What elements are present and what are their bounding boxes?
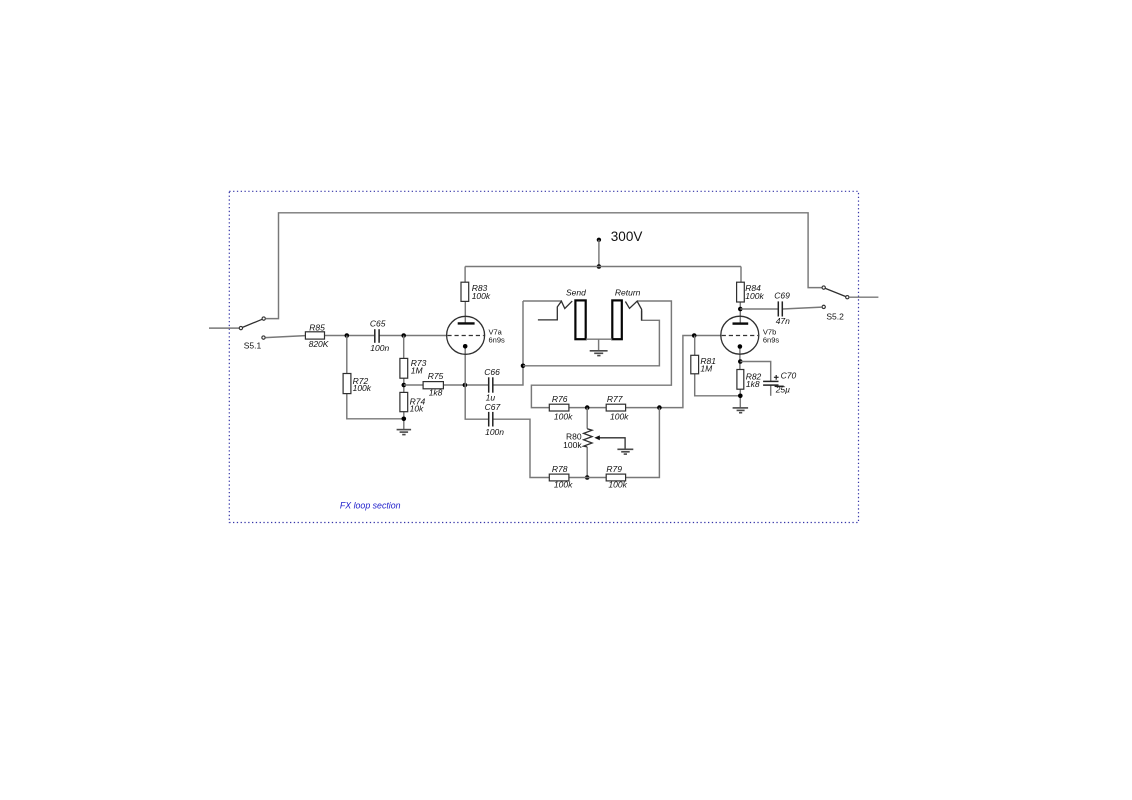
wire R75 to C66: [443, 384, 488, 386]
wire R80 bottom to R78/R79 row: [586, 447, 588, 478]
capacitor C69: [778, 301, 782, 316]
triode V7a grid (dashed): [447, 335, 483, 337]
wire C66 right up to send net: [493, 301, 523, 385]
wire C69 to S5.2 lower contact: [783, 307, 822, 309]
switch S5.1 common contact: [239, 326, 242, 329]
wire node to R75: [404, 384, 423, 386]
300V supply dot: [597, 238, 601, 242]
capacitor C66: [489, 377, 493, 392]
node junction 300V rail: [597, 264, 602, 269]
triode V7a anode plate: [458, 322, 475, 324]
svg-text:100n: 100n: [370, 343, 389, 353]
node junction V7b grid / R81: [692, 333, 697, 338]
wire node down to R79 right: [626, 408, 660, 478]
triode V7a cathode terminal: [463, 344, 468, 349]
wire R74 bottom to ground: [403, 412, 405, 429]
wire jack sleeves to ground: [586, 339, 612, 350]
resistor R77: [606, 404, 625, 411]
svg-text:100k: 100k: [608, 480, 627, 490]
resistor R83: [461, 282, 469, 301]
svg-text:C67: C67: [485, 402, 501, 412]
wire R83 bottom to V7a anode: [464, 301, 466, 322]
svg-text:C70: C70: [781, 371, 797, 381]
wire 300V anode supply rail: [465, 266, 741, 268]
svg-text:6n9s: 6n9s: [489, 335, 506, 344]
wire junction down to R73: [403, 336, 405, 359]
wire rail down to R84: [740, 267, 742, 283]
triode V7b grid (dashed): [722, 335, 758, 337]
wire R81 bottom lead to cathode ground rail: [695, 374, 741, 396]
switch S5.2 lower contact: [822, 305, 825, 308]
svg-text:6n9s: 6n9s: [763, 335, 780, 344]
svg-text:R75: R75: [428, 371, 444, 381]
resistor R84: [737, 282, 745, 302]
ground below R74: [397, 430, 412, 435]
capacitor C70 plus sign: [774, 375, 779, 380]
switch S5.2 upper contact: [822, 286, 825, 289]
send jack body J1: [575, 300, 585, 339]
wire R84 node to C69: [740, 308, 778, 310]
ground below V7b cathode network: [733, 408, 749, 413]
svg-text:1k8: 1k8: [746, 379, 760, 389]
svg-text:S5.2: S5.2: [826, 311, 844, 321]
wire V7a cathode down to node: [464, 347, 466, 385]
svg-text:100k: 100k: [563, 440, 582, 450]
wire node down to R80 top: [586, 408, 588, 429]
capacitor C67: [489, 412, 493, 427]
wire R77 right to V7b grid riser: [626, 336, 722, 408]
triode V7a envelope: [447, 316, 485, 354]
resistor R76: [549, 404, 569, 411]
wire R76 right to R77 left: [569, 407, 606, 409]
wire C67 right to R78: [493, 419, 549, 477]
node junction R81/R82/C70 ground: [738, 394, 743, 399]
wire C70 bottom to ground rail: [770, 385, 772, 395]
node junction R73/R74/R75: [402, 383, 407, 388]
svg-text:R85: R85: [309, 322, 325, 332]
svg-text:C65: C65: [370, 319, 386, 329]
FX loop section dashed boundary: [229, 191, 858, 522]
resistor R82: [737, 370, 744, 390]
capacitor C65: [375, 329, 379, 343]
potentiometer R80 wiper arrowhead: [594, 435, 600, 440]
potentiometer R80 zigzag: [584, 429, 593, 447]
wire S5.1 lower throw to R85: [265, 336, 305, 338]
node junction send net / return tip: [521, 364, 526, 369]
wire R78 right to node: [569, 477, 606, 479]
resistor R81: [691, 355, 699, 374]
svg-text:10k: 10k: [410, 404, 424, 414]
svg-text:C66: C66: [484, 367, 500, 377]
ground below jacks: [590, 351, 608, 356]
svg-text:100k: 100k: [554, 411, 573, 421]
triode V7b anode plate: [733, 322, 749, 324]
svg-text:FX loop section: FX loop section: [340, 501, 401, 511]
resistor R79: [606, 474, 625, 481]
node junction V7a cathode/R75/C66/C67: [463, 383, 468, 388]
svg-text:100k: 100k: [472, 291, 491, 301]
wire cathode node to C70 top: [740, 362, 770, 382]
svg-text:R79: R79: [606, 464, 622, 474]
wire R84 bottom to V7b anode: [739, 302, 741, 323]
switch S5.2 arm: [825, 288, 845, 296]
capacitor C70 polarized plates: [763, 381, 784, 386]
wire R82 bottom to ground: [739, 389, 741, 407]
resistor R75: [423, 382, 443, 389]
wire R72 bottom to ground node: [347, 394, 404, 419]
svg-text:R77: R77: [607, 394, 623, 404]
node junction R76/R77/R80 top: [585, 405, 590, 410]
node junction R72/R74 ground net: [402, 417, 407, 422]
switch S5.1 lower throw contact: [262, 336, 265, 339]
wire node down to C67: [465, 385, 488, 419]
wire V7b cathode down to R82: [739, 347, 741, 370]
return jack tip contact: [625, 301, 641, 320]
svg-text:R78: R78: [552, 464, 568, 474]
send jack tip contact: [538, 301, 572, 320]
return jack body J2: [612, 300, 622, 339]
node junction R84/C69/V7b anode: [738, 307, 743, 312]
wire R81 top lead: [694, 336, 696, 356]
svg-text:100k: 100k: [745, 291, 764, 301]
ground at R80 wiper: [617, 449, 633, 454]
switch S5.1 upper throw contact: [262, 317, 265, 320]
svg-text:820K: 820K: [309, 339, 329, 349]
svg-text:100n: 100n: [485, 427, 504, 437]
triode V7b cathode terminal: [738, 344, 743, 349]
wire 300V drop to anode rail: [598, 240, 600, 267]
wire R73 bottom to R74 top through node: [403, 378, 405, 392]
svg-text:1M: 1M: [700, 363, 713, 373]
wire output stub leaving border at right: [849, 296, 878, 298]
resistor R73: [400, 358, 408, 378]
triode V7b envelope: [721, 316, 759, 354]
svg-text:47n: 47n: [776, 316, 790, 326]
wire top of jack loop to right vertical: [523, 300, 561, 302]
wire R85 to C65: [325, 335, 375, 337]
node junction R78/R79/R80 bottom: [585, 475, 590, 480]
svg-text:100k: 100k: [554, 480, 573, 490]
node junction V7b cathode/R82/C70: [738, 359, 743, 364]
wire return tip loop to send node: [523, 311, 659, 366]
wire rail down to R83: [464, 267, 466, 283]
wire junction down to R72: [346, 336, 348, 374]
svg-text:100k: 100k: [353, 383, 372, 393]
svg-text:R76: R76: [552, 394, 568, 404]
node junction R77/R79 riser: [657, 405, 662, 410]
svg-text:1M: 1M: [411, 365, 424, 375]
resistor R78: [549, 474, 569, 481]
svg-text:300V: 300V: [611, 229, 643, 244]
svg-text:25µ: 25µ: [775, 385, 790, 395]
resistor R72: [343, 374, 351, 394]
svg-text:S5.1: S5.1: [244, 341, 262, 351]
switch S5.1 arm: [243, 319, 263, 327]
node junction C65/R73: [401, 333, 406, 338]
potentiometer R80 wiper arrow: [598, 438, 626, 449]
wire C65 to V7a grid: [379, 335, 447, 337]
svg-text:100k: 100k: [610, 411, 629, 421]
svg-text:1k8: 1k8: [429, 388, 443, 398]
switch S5.2 common contact: [846, 296, 849, 299]
resistor R74: [400, 392, 408, 411]
wire return jack peak to right vertical of jack loop: [531, 301, 671, 408]
wire from S5.1 upper throw up and across top to right side, down to S5.2: [266, 213, 822, 319]
svg-text:Send: Send: [566, 287, 586, 297]
resistor R85: [305, 332, 324, 339]
svg-text:C69: C69: [774, 291, 790, 301]
wire input stub entering border at left: [209, 327, 239, 329]
node junction R85/C65/R72: [345, 333, 350, 338]
svg-text:Return: Return: [615, 287, 641, 297]
